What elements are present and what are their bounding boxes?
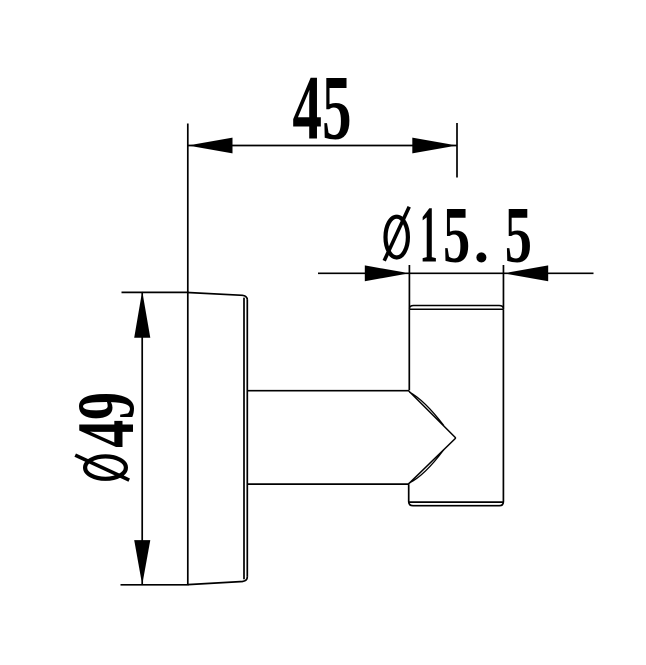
arm V joint inner upper intersection curve xyxy=(409,392,444,426)
hook cylinder bottom cap xyxy=(409,502,504,506)
dim 45 text xyxy=(292,56,351,158)
phi glyph xyxy=(75,455,129,480)
svg-text:45: 45 xyxy=(292,56,351,158)
svg-text:5: 5 xyxy=(443,190,470,279)
dim phi49 arrow bottom xyxy=(134,540,150,585)
dim phi49: dimension line xyxy=(141,292,143,585)
wall plate right outer edge xyxy=(246,300,248,577)
hook cylinder top cap edge xyxy=(409,306,503,310)
hook cylinder right edge xyxy=(502,309,504,501)
hook cylinder top seam xyxy=(409,308,503,310)
dim phi15.5: extension line left xyxy=(408,265,410,309)
dim phi15.5: extension line right xyxy=(502,265,504,309)
wall plate bottom edge xyxy=(188,577,248,585)
wall plate seam line xyxy=(243,298,245,580)
dim 45 arrow left xyxy=(188,138,233,154)
hook cylinder left edge lower xyxy=(408,484,410,501)
dim phi49 text (rotated) xyxy=(61,392,151,480)
dim phi15.5 arrow left (outside, points right) xyxy=(365,265,410,281)
hook cylinder bottom seam xyxy=(410,501,503,503)
dim phi49 arrow top xyxy=(134,291,150,338)
dim phi15.5 phi symbol xyxy=(384,207,409,261)
arm top line xyxy=(247,390,409,392)
dim phi15.5 arrow right (outside, points left) xyxy=(504,265,549,281)
wall plate left edge xyxy=(187,293,189,585)
dim 45: dimension line xyxy=(188,145,457,147)
dim 45 arrow right xyxy=(412,138,457,154)
wall plate top edge xyxy=(188,293,248,300)
dim phi15.5: dimension line xyxy=(318,272,594,274)
dim phi15.5 digits xyxy=(420,192,438,280)
svg-text:.: . xyxy=(474,208,490,276)
svg-text:5: 5 xyxy=(505,190,532,279)
dim 45: extension line right xyxy=(456,123,458,178)
arm V joint outer lower diagonal xyxy=(408,438,455,484)
svg-text:49: 49 xyxy=(61,392,151,448)
arm V joint inner lower intersection curve xyxy=(409,450,444,484)
dim 45: extension line left xyxy=(187,124,189,293)
hook cylinder left edge upper xyxy=(408,309,410,390)
arm bottom line xyxy=(247,483,408,485)
svg-text:1: 1 xyxy=(420,192,438,280)
arm V joint outer upper diagonal xyxy=(409,391,456,438)
dim phi49: extension line top xyxy=(122,291,190,293)
dim phi49: extension line bottom xyxy=(121,584,190,586)
